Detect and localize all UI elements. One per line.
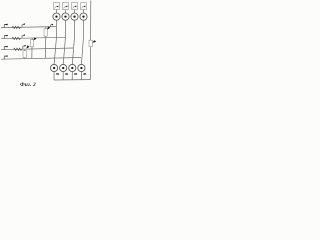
flag in box 4	[82, 6, 86, 9]
label under machine 2	[65, 73, 67, 75]
svg-text:Фиг. 2: Фиг. 2	[20, 82, 36, 88]
terminal switch row 1	[4, 24, 8, 28]
flag in box 3	[73, 6, 77, 9]
top box 1	[54, 3, 60, 10]
branch B wire (row2 to row4)	[31, 38, 33, 58]
label under machine 1	[56, 73, 59, 75]
contact flag row 2 mid	[22, 34, 25, 38]
branch A box	[44, 29, 47, 36]
contact flag row 3 mid	[23, 45, 26, 49]
terminal switch row 3	[4, 46, 8, 50]
bottom machine 2 (circle with dot)	[60, 64, 67, 71]
row 3 wire	[1, 48, 73, 50]
row 2 wire	[1, 37, 65, 38]
column wire 1	[54, 20, 56, 64]
flag on right bus box	[92, 40, 96, 42]
box on right bus	[89, 40, 92, 46]
flag in box 1	[55, 6, 59, 9]
branch A wire (row1 to row4)	[44, 27, 47, 58]
top box 2	[63, 3, 69, 10]
branch C box	[23, 51, 26, 58]
meter 3 (top circle with dot)	[71, 13, 78, 20]
meter 1 (top circle with dot)	[53, 13, 60, 20]
flag in box 2	[64, 6, 68, 9]
wire box2 to meter 2	[65, 10, 67, 14]
drop wire machine 4	[80, 72, 82, 80]
branch B box	[30, 40, 33, 47]
label under machine 3	[74, 73, 76, 75]
resistor row 1	[12, 26, 20, 28]
terminal switch row 4	[4, 55, 8, 59]
contact flag row 1 right	[50, 24, 53, 27]
drop wire machine 1	[53, 72, 55, 80]
right bus wire	[89, 1, 91, 80]
meter 2 (top circle with dot)	[62, 13, 69, 20]
wire box1 to meter 1	[56, 10, 58, 14]
column wire 4	[81, 20, 83, 64]
wire box3 to meter 3	[74, 10, 76, 14]
column wire 3	[72, 20, 74, 64]
contact flag row 1 mid	[22, 23, 25, 27]
branch A flag	[47, 26, 50, 29]
top box 3	[72, 3, 78, 10]
branch B flag	[33, 37, 36, 40]
wire box4 to meter 4	[83, 10, 85, 14]
label under machine 4	[83, 73, 85, 75]
resistor row 3	[14, 48, 22, 50]
bottom machine 3 (circle with dot)	[69, 64, 76, 71]
bottom machine 1 (circle with dot)	[51, 64, 58, 71]
branch C wire (row3 to row4)	[24, 49, 26, 59]
branch C flag	[26, 45, 29, 48]
row 1 wire	[1, 27, 56, 28]
top box 4	[81, 3, 87, 10]
bottom machine 4 (circle with dot)	[78, 64, 85, 71]
bottom bus wire	[54, 79, 90, 81]
drop wire machine 2	[62, 72, 64, 80]
drop wire machine 3	[71, 72, 73, 80]
meter 4 (top circle with dot)	[80, 13, 87, 20]
row 4 wire	[1, 58, 81, 60]
resistor row 2	[12, 37, 20, 39]
column wire 2	[63, 20, 65, 64]
terminal switch row 2	[4, 35, 8, 39]
